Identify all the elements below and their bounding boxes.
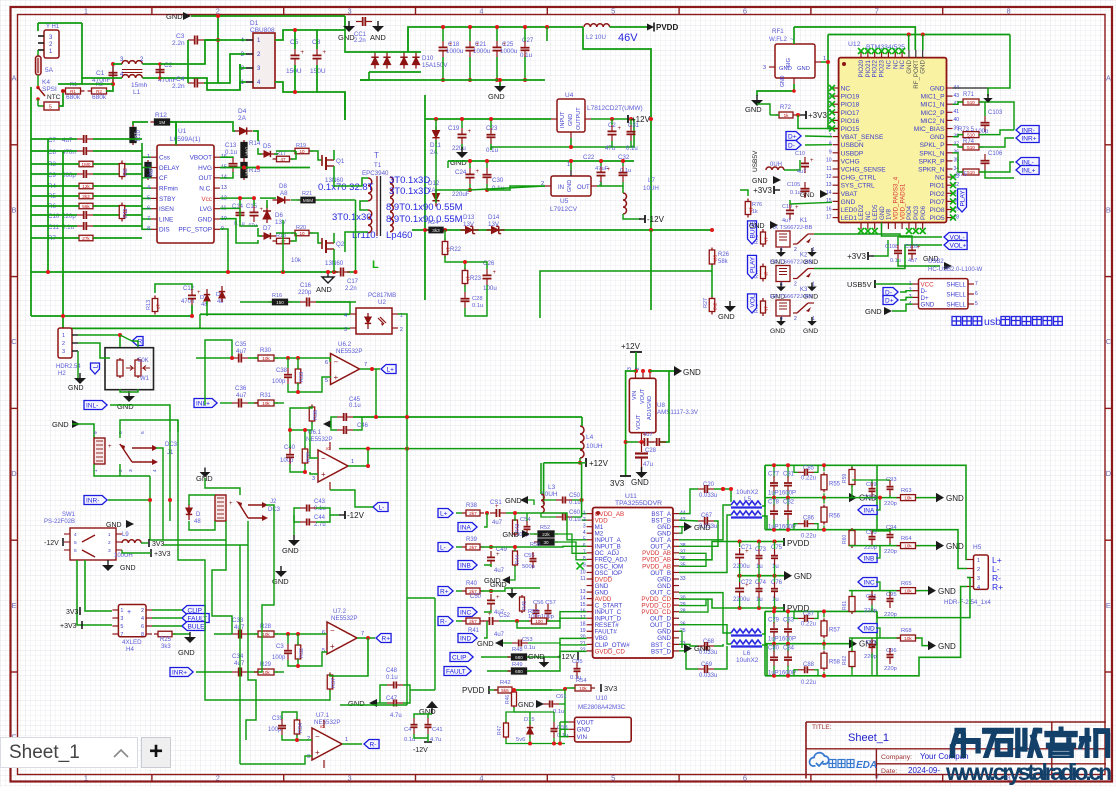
svg-text:C106: C106 [988, 151, 1003, 157]
svg-text:C103: C103 [988, 110, 1003, 116]
svg-text:C35: C35 [235, 341, 247, 348]
svg-text:2: 2 [147, 164, 150, 170]
svg-text:VOUT: VOUT [640, 388, 646, 404]
svg-text:C10: C10 [48, 213, 60, 220]
svg-text:R55: R55 [829, 481, 841, 487]
svg-text:A8: A8 [280, 190, 288, 197]
svg-text:C17: C17 [347, 279, 359, 285]
svg-text:220p: 220p [864, 608, 877, 614]
svg-text:+: + [127, 609, 131, 616]
wire bus to U1 pins [141, 143, 143, 230]
svg-text:Q1: Q1 [336, 158, 345, 165]
svg-text:100: 100 [535, 619, 543, 624]
svg-text:1: 1 [147, 154, 150, 160]
svg-text:+: + [301, 50, 305, 56]
svg-text:C83: C83 [783, 617, 795, 623]
svg-text:3: 3 [348, 774, 352, 783]
flag INR- left [84, 496, 107, 505]
svg-text:PIO2: PIO2 [929, 191, 944, 198]
flag VOL+ [944, 241, 967, 250]
svg-text:GND: GND [770, 328, 785, 335]
resistor R45 vertical [521, 595, 523, 613]
svg-text:R27: R27 [703, 298, 709, 308]
svg-text:GND: GND [797, 66, 810, 72]
svg-text:E: E [11, 601, 16, 610]
wire bridge caps top/bottom [275, 30, 317, 49]
svg-text:8: 8 [141, 632, 144, 638]
svg-text:2: 2 [400, 327, 403, 333]
resistor R44 vertical [514, 549, 516, 567]
svg-text:D: D [1106, 469, 1112, 478]
svg-text:R38: R38 [466, 503, 478, 509]
svg-text:C3: C3 [276, 644, 284, 650]
snubber quad INA [851, 465, 853, 470]
svg-text:D+: D+ [788, 133, 797, 140]
svg-text:48: 48 [194, 519, 201, 525]
svg-text:GND: GND [488, 92, 505, 101]
svg-text:GND: GND [749, 223, 765, 230]
inductor L1 15mh common-mode choke [113, 63, 122, 65]
svg-text:R63: R63 [901, 488, 912, 494]
ground GND under caps [499, 81, 501, 86]
ground GND near R52 [522, 530, 530, 538]
wire L5 to block AB [762, 465, 765, 506]
svg-text:56k: 56k [82, 204, 90, 209]
power -12V right [644, 215, 646, 223]
svg-text:C34: C34 [232, 653, 244, 660]
svg-text:GND: GND [745, 105, 762, 114]
svg-text:6: 6 [118, 431, 124, 434]
svg-text:+: + [745, 583, 749, 589]
resistor R11 vertical [121, 203, 123, 222]
svg-text:SPKL_P: SPKL_P [920, 142, 946, 149]
svg-text:2k7: 2k7 [469, 511, 477, 516]
svg-text:7: 7 [364, 362, 367, 368]
wire R12 net [133, 122, 148, 125]
svg-text:PVDD: PVDD [462, 686, 484, 695]
svg-text:IND: IND [460, 635, 472, 642]
svg-text:C1: C1 [96, 70, 105, 77]
svg-text:1M: 1M [159, 120, 166, 125]
svg-text:680k: 680k [92, 94, 107, 101]
svg-text:Company:: Company: [881, 754, 912, 761]
svg-text:4u7: 4u7 [797, 169, 806, 175]
svg-text:+: + [315, 748, 320, 757]
svg-text:+: + [476, 42, 480, 48]
resistor R14 [243, 140, 245, 160]
svg-text:100p: 100p [280, 458, 294, 464]
svg-text:GND: GND [938, 642, 956, 651]
svg-text:D8: D8 [279, 183, 287, 190]
wire bridge input [205, 39, 246, 41]
svg-text:+3V3: +3V3 [847, 252, 866, 261]
ground GND row D and C53 [495, 639, 503, 647]
svg-text:47u: 47u [643, 462, 653, 468]
svg-text:27k: 27k [82, 236, 90, 241]
snubber quad INB [851, 528, 853, 548]
svg-text:3: 3 [108, 548, 111, 554]
svg-text:100UH: 100UH [114, 553, 133, 559]
svg-text:+: + [334, 373, 339, 382]
svg-text:R23: R23 [470, 276, 482, 282]
svg-text:C10: C10 [795, 151, 805, 157]
svg-text:100p: 100p [272, 655, 286, 661]
svg-text:2: 2 [216, 6, 220, 15]
svg-text:U8: U8 [657, 402, 665, 409]
svg-text:R48: R48 [512, 647, 523, 653]
svg-text:0.033u: 0.033u [699, 673, 717, 679]
svg-text:T1: T1 [374, 162, 382, 169]
svg-text:W.FL2: W.FL2 [769, 36, 787, 43]
svg-text:Css: Css [159, 155, 170, 162]
svg-text:CHG_CTRL: CHG_CTRL [841, 175, 877, 182]
svg-text:R-: R- [440, 618, 447, 625]
svg-text:C81: C81 [783, 471, 795, 477]
svg-text:NE5532P: NE5532P [336, 348, 363, 355]
svg-text:47u: 47u [605, 146, 615, 152]
svg-text:FAULT: FAULT [446, 668, 466, 675]
svg-text:R37: R37 [331, 678, 337, 688]
svg-text:GND: GND [502, 530, 519, 539]
resistor R42 5k6 [494, 689, 516, 691]
svg-text:100u: 100u [483, 285, 497, 292]
svg-text:150U: 150U [286, 68, 302, 75]
mosfet Q1 13N60 [321, 155, 323, 166]
svg-text:0.1u: 0.1u [62, 224, 75, 231]
svg-text:AND: AND [370, 33, 386, 42]
capacitor C28 0.1u [464, 292, 466, 298]
svg-text:6: 6 [743, 6, 747, 15]
svg-text:3V3: 3V3 [152, 541, 165, 548]
svg-text:5: 5 [140, 431, 146, 434]
U12 top pins [860, 50, 862, 58]
wire cap rails [442, 27, 444, 41]
svg-text:GVDD_CD: GVDD_CD [595, 648, 626, 655]
svg-text:H5: H5 [973, 544, 982, 551]
ground GND usb row [944, 262, 952, 270]
resistor R76 1k top [747, 199, 749, 218]
svg-text:4u7: 4u7 [492, 520, 503, 526]
wire OUT_A to L5 [679, 505, 731, 540]
svg-text:R22: R22 [450, 247, 462, 253]
svg-text:3: 3 [977, 576, 980, 582]
svg-text:A: A [1106, 74, 1111, 83]
svg-text:NTC: NTC [47, 94, 61, 101]
ground GND at C45 [323, 420, 331, 428]
svg-text:D10: D10 [422, 55, 434, 62]
flag INL+ mid [194, 399, 217, 408]
svg-text:OUTPUT: OUTPUT [576, 107, 582, 130]
wire node row [58, 83, 113, 85]
wire C51 to INPUT_A [506, 513, 587, 540]
svg-text:2: 2 [794, 282, 797, 288]
wire to INR INL flags [979, 130, 1014, 135]
flag VOL- [944, 233, 967, 242]
svg-text:4: 4 [152, 469, 158, 472]
svg-text:0.1u: 0.1u [472, 303, 483, 309]
resistor R74 510 [959, 146, 983, 148]
wire U7.1 output to R- [342, 743, 362, 745]
svg-text:U4: U4 [565, 92, 574, 99]
svg-text:L3: L3 [548, 484, 556, 491]
resistor R19 10 [291, 150, 313, 152]
svg-text:+: + [618, 126, 622, 132]
svg-text:C23: C23 [486, 125, 498, 132]
svg-text:PLAY: PLAY [749, 256, 756, 273]
svg-text:10: 10 [299, 231, 305, 236]
ground GND row B [502, 576, 510, 584]
svg-text:GND: GND [718, 312, 735, 321]
output filter block A/B [765, 464, 877, 466]
svg-text:L+: L+ [440, 510, 448, 517]
svg-text:4u7: 4u7 [494, 632, 505, 638]
svg-text:18: 18 [580, 622, 586, 628]
sheet tab UI [0, 737, 138, 768]
svg-text:U7.1: U7.1 [316, 712, 330, 719]
svg-text:1uP1600P: 1uP1600P [768, 490, 796, 496]
svg-text:4XLED: 4XLED [122, 639, 142, 646]
wire L6 to block CD [762, 611, 765, 634]
svg-text:+: + [323, 50, 327, 56]
svg-text:17: 17 [826, 214, 832, 220]
svg-text:D4: D4 [238, 108, 247, 115]
svg-text:W1: W1 [140, 376, 150, 382]
svg-text:www.crystalradio.cn: www.crystalradio.cn [945, 759, 1111, 785]
svg-text:RFmin: RFmin [159, 186, 178, 193]
svg-text:D13: D13 [463, 214, 475, 221]
svg-text:D6: D6 [275, 212, 283, 219]
svg-text:+: + [795, 205, 799, 211]
wire U6.2 output to L+ [360, 368, 380, 370]
svg-text:HX TS6672J-BB: HX TS6672J-BB [770, 260, 813, 266]
svg-text:+: + [745, 549, 749, 555]
svg-text:2200u: 2200u [733, 564, 750, 570]
svg-text:NE5532P: NE5532P [314, 719, 341, 726]
svg-text:U11: U11 [625, 493, 637, 500]
svg-text:D-: D- [788, 142, 795, 149]
svg-text:STBY: STBY [159, 196, 176, 203]
svg-text:11: 11 [580, 576, 585, 582]
thermistor NTC [37, 99, 39, 106]
svg-text:+3V3: +3V3 [60, 623, 77, 630]
svg-text:SPSI: SPSI [42, 86, 57, 93]
resistor R21 [297, 199, 319, 201]
flag GND right of SW1 [126, 520, 134, 528]
svg-text:USB2: USB2 [928, 259, 944, 265]
svg-text:B: B [1106, 205, 1111, 214]
caption bluetooth section pseudo-glyphs [952, 317, 982, 326]
svg-text:LED0: LED0 [841, 207, 858, 214]
svg-text:R72: R72 [780, 105, 792, 111]
svg-text:R33: R33 [299, 372, 305, 382]
svg-text:1000u: 1000u [473, 48, 491, 55]
svg-text:GND: GND [800, 192, 815, 199]
flag R+ amp [438, 587, 453, 596]
svg-text:10uhX2: 10uhX2 [736, 657, 759, 664]
svg-text:10uhX2: 10uhX2 [736, 489, 759, 496]
svg-text:C50: C50 [470, 594, 482, 600]
svg-text:SPKL_N: SPKL_N [919, 150, 945, 157]
svg-text:BST_D: BST_D [651, 648, 671, 655]
wire U6.1 output [348, 449, 368, 466]
U11 right pins [673, 513, 679, 515]
svg-text:K3: K3 [800, 287, 808, 293]
svg-text:CLIP: CLIP [452, 654, 466, 661]
svg-text:L6599A(1): L6599A(1) [170, 136, 200, 143]
svg-text:GND: GND [198, 216, 213, 223]
wire L4 to +12V rail [579, 458, 581, 463]
svg-text:MIC1_P: MIC1_P [921, 94, 945, 101]
svg-text:BTM334/525: BTM334/525 [866, 44, 905, 51]
wire mid caps verticals [739, 542, 741, 548]
svg-text:10k: 10k [262, 401, 270, 406]
svg-text:2: 2 [583, 517, 586, 523]
flag IND [458, 634, 477, 643]
svg-text:-12V: -12V [413, 747, 428, 754]
svg-text:R68: R68 [901, 628, 912, 634]
svg-text:GND: GND [803, 328, 818, 335]
svg-text:15A150V: 15A150V [422, 62, 448, 69]
svg-text:C105: C105 [787, 182, 800, 188]
wire main bus y272 [31, 271, 338, 273]
ground GND left of L3 [520, 496, 528, 504]
svg-text:LINE: LINE [159, 216, 173, 223]
svg-text:50K: 50K [138, 358, 149, 364]
svg-text:GND: GND [348, 699, 365, 708]
svg-text:C24: C24 [455, 169, 467, 176]
svg-text:7: 7 [147, 216, 150, 222]
inductor L6 10uhX2 [731, 629, 761, 633]
svg-text:R56: R56 [829, 514, 841, 520]
svg-text:L: L [92, 365, 99, 369]
svg-text:R+: R+ [440, 588, 449, 595]
svg-text:3: 3 [583, 523, 586, 529]
svg-text:PS-22F02B: PS-22F02B [44, 519, 75, 525]
svg-text:RF1: RF1 [772, 28, 784, 35]
svg-text:1u: 1u [772, 597, 779, 603]
svg-text:PIO5: PIO5 [929, 215, 944, 222]
svg-text:220p: 220p [298, 290, 312, 296]
svg-text:GND: GND [694, 523, 711, 532]
svg-text:L: L [372, 259, 379, 271]
relay J2 DC3 [215, 495, 226, 521]
logo jlc eda [810, 753, 878, 771]
svg-text:R47: R47 [497, 726, 503, 735]
svg-text:10: 10 [580, 569, 586, 575]
svg-text:8: 8 [1007, 6, 1011, 15]
svg-text:R65: R65 [901, 581, 912, 587]
power flag PVDD mid1 [783, 538, 785, 546]
svg-text:INR-: INR- [86, 497, 99, 504]
svg-text:3T0.1x30: 3T0.1x30 [332, 212, 372, 223]
power +12V [627, 115, 629, 123]
svg-text:10: 10 [826, 158, 832, 164]
svg-text:H4: H4 [126, 646, 134, 653]
snubber quad INC [858, 578, 877, 587]
svg-text:HVG: HVG [198, 165, 212, 172]
svg-text:5v6: 5v6 [516, 737, 525, 743]
svg-text:1000u: 1000u [446, 48, 464, 55]
flag PLAY vertical [958, 189, 967, 212]
svg-text:PIO6: PIO6 [920, 205, 927, 220]
svg-text:GND: GND [577, 727, 591, 734]
svg-text:220p: 220p [884, 666, 897, 672]
svg-text:40: 40 [954, 117, 960, 123]
svg-text:INR+: INR+ [172, 669, 187, 676]
svg-text:2: 2 [794, 316, 797, 322]
svg-text:U6.2: U6.2 [338, 341, 352, 348]
svg-text:0.1u: 0.1u [225, 149, 238, 156]
svg-text:C43: C43 [314, 499, 326, 505]
wire U7.2 out to R+ [357, 637, 375, 639]
svg-text:INL+: INL+ [196, 400, 210, 407]
svg-text:1: 1 [62, 333, 65, 339]
svg-text:R54: R54 [576, 678, 587, 684]
resistor R32 vertical [297, 643, 299, 662]
svg-text:7: 7 [120, 632, 123, 638]
svg-text:M5M: M5M [303, 198, 313, 203]
svg-text:1: 1 [567, 162, 570, 168]
svg-text:GND: GND [282, 546, 299, 555]
svg-text:5: 5 [147, 195, 150, 201]
resistor R27 [711, 296, 713, 315]
ground GND after R25 [189, 632, 191, 637]
add sheet button [141, 737, 171, 768]
svg-text:0.1x70 32.8T: 0.1x70 32.8T [318, 182, 374, 193]
svg-text:C54: C54 [520, 517, 531, 523]
svg-text:R58: R58 [829, 660, 841, 666]
svg-text:D15: D15 [524, 717, 535, 723]
svg-text:2: 2 [118, 469, 124, 472]
svg-text:L2 10U: L2 10U [586, 34, 606, 41]
resistor R41 2k7 [462, 620, 484, 622]
svg-text:C76: C76 [771, 580, 783, 586]
ground GND flag at U11 pins 25-24 [684, 644, 692, 653]
svg-text:13V: 13V [275, 219, 287, 226]
svg-text:47uF: 47uF [595, 166, 609, 172]
svg-text:1: 1 [108, 532, 111, 538]
svg-text:GND: GND [567, 180, 573, 192]
svg-text:10k: 10k [262, 670, 270, 675]
svg-text:C53: C53 [522, 637, 533, 643]
ground GND left of U12 [820, 190, 828, 198]
svg-text:+: + [917, 245, 921, 251]
svg-text:SPKR_N: SPKR_N [918, 167, 945, 174]
resistor R73 510 [959, 134, 983, 136]
wire transformer primary [334, 176, 368, 186]
svg-text:MIC2_N: MIC2_N [920, 118, 944, 125]
svg-text:R61: R61 [842, 601, 848, 610]
svg-text:INC: INC [864, 579, 876, 586]
svg-text:C28: C28 [472, 296, 483, 302]
svg-text:GND: GND [694, 644, 711, 653]
svg-text:500p: 500p [522, 564, 535, 570]
svg-text:6: 6 [147, 206, 150, 212]
wire PVDD_CD bundle to rail2 [679, 599, 737, 608]
svg-text:PIO18: PIO18 [841, 102, 860, 109]
capacitor C58 0.1u [553, 722, 555, 728]
svg-text:680k: 680k [66, 94, 81, 101]
svg-text:GND: GND [865, 307, 882, 316]
fuse F1 5A [37, 50, 39, 56]
svg-text:C74: C74 [755, 580, 767, 586]
resistor R39 2k7 [462, 546, 484, 548]
svg-text:GND: GND [120, 565, 136, 572]
svg-text:4: 4 [583, 530, 586, 536]
svg-text:4: 4 [74, 532, 77, 538]
svg-text:−: − [334, 357, 339, 366]
svg-text:L-: L- [440, 544, 446, 551]
